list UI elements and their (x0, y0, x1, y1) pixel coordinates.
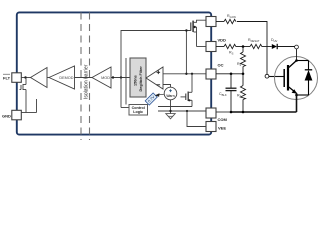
isolation barrier dashed line 2 (89, 13, 91, 141)
node OC R3 junction (242, 73, 245, 76)
pin FLT (12, 73, 21, 83)
resistor RS (224, 44, 236, 48)
node R3 bottom (242, 111, 245, 114)
wire internal ground rail upper (158, 106, 192, 108)
buffer amplifier A1 (31, 68, 48, 88)
wire OC pin to divider (216, 73, 243, 75)
resistor RDESAT (250, 44, 262, 48)
svg-text:FLT: FLT (3, 76, 11, 81)
svg-text:COM: COM (218, 117, 228, 122)
node desat divider (242, 45, 245, 48)
wire collector to terminal (296, 49, 298, 61)
node VEE link junction (186, 110, 188, 112)
label 0.7V threshold (145, 93, 157, 105)
wire GND pin run (21, 112, 37, 114)
node emitter junction (295, 94, 298, 97)
wire internal ground rail lower (158, 110, 206, 112)
wire emitter to COM rail (296, 93, 298, 112)
wire COM rail (216, 111, 231, 113)
wire control logic riser 2 (125, 58, 127, 105)
node control riser junction (120, 76, 122, 78)
svg-text:OC: OC (218, 63, 224, 68)
IC package boundary U1 (17, 12, 211, 134)
resistor R2 (241, 47, 246, 74)
wire gate terminal riser (265, 74, 269, 78)
wire gate to IGBT (269, 76, 284, 78)
isolation barrier dashed line 1 (80, 13, 82, 141)
svg-text:Deglitch Filter: Deglitch Filter (139, 66, 143, 92)
node clamp drain junction (191, 73, 193, 75)
wire GND riser (36, 99, 38, 113)
source VWARN (164, 87, 177, 100)
wire comparator minus to VWARN (163, 85, 171, 88)
svg-text:Warn: Warn (166, 94, 174, 98)
demodulator DEMOD (49, 66, 75, 89)
comparator U2 (146, 67, 163, 89)
pin VEE (206, 122, 216, 132)
svg-text:VEE: VEE (218, 126, 226, 131)
resistor RGON (224, 19, 236, 23)
wire RDESAT to DHV (262, 46, 272, 48)
svg-text:MOD: MOD (101, 76, 110, 80)
diode D2 freewheel (297, 61, 313, 96)
wire gate net to OC net (185, 31, 187, 74)
terminal collector (295, 45, 299, 49)
wire RS to node (236, 46, 250, 48)
svg-text:GND: GND (2, 114, 11, 119)
svg-text:Logic: Logic (133, 110, 143, 114)
wire MOD to deglitch filter (111, 77, 130, 79)
wire OUT pin to RGON (216, 21, 224, 23)
wire VDD pin to RS (216, 46, 224, 48)
wire DHV to collector terminal (277, 46, 294, 48)
arrow 0.7V callout (159, 93, 165, 96)
node FLT junction (24, 76, 26, 78)
transistor Q2 clamp (181, 74, 193, 107)
transistor Q1 FLT open-drain (20, 78, 27, 113)
node OC CBLK junction (230, 73, 233, 76)
node clamp body junction (188, 99, 190, 101)
svg-text:DEMOD: DEMOD (59, 76, 73, 80)
node PMOS body junction (193, 26, 195, 28)
node ground junction (169, 110, 171, 112)
wire RGON to gate drop (237, 22, 267, 75)
control logic block (129, 105, 148, 116)
wire control logic to PMOS gate (121, 31, 191, 108)
pin VDD (206, 42, 216, 52)
node collector junction (295, 59, 298, 62)
wire VEE internal link (187, 111, 206, 127)
diode DHV (272, 44, 277, 49)
IGBT Q4 (275, 57, 318, 100)
pin GND (12, 110, 21, 120)
node gate net junction (185, 29, 187, 31)
wire comparator plus to OC pin (163, 73, 206, 75)
pin OUT (206, 17, 216, 27)
svg-text:VDD: VDD (218, 38, 227, 43)
transistor Q3 output PMOS (191, 20, 206, 46)
ground symbol (166, 114, 175, 119)
deglitch filter block (130, 58, 146, 97)
capacitor CBLK (226, 74, 237, 112)
svg-text:150ns: 150ns (134, 75, 138, 86)
pin COM (206, 108, 216, 118)
modulator MOD (92, 67, 111, 88)
resistor R3 (241, 74, 246, 112)
wire DEMOD across barrier to MOD (75, 77, 93, 79)
wire FLT pin to buffer (22, 77, 31, 79)
svg-text:Isolation barrier: Isolation barrier (83, 64, 89, 99)
node OC net junction (185, 73, 187, 75)
wire buffer to DEMOD (47, 77, 49, 79)
node CBLK bottom (230, 111, 233, 114)
pin OC (206, 69, 216, 79)
wire VWARN to ground (170, 100, 172, 114)
node MOD output junction (112, 76, 114, 78)
